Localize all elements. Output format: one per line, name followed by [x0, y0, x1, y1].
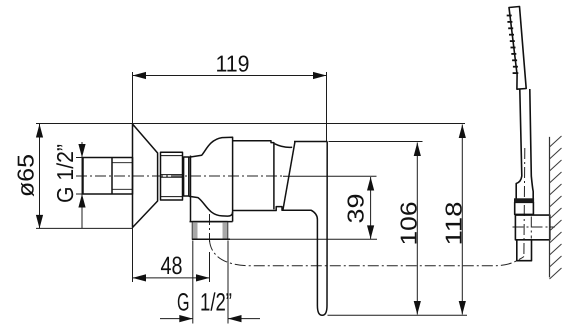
svg-text:48: 48: [161, 252, 183, 280]
svg-text:G: G: [177, 289, 190, 317]
svg-text:106: 106: [396, 202, 422, 246]
svg-text:118: 118: [441, 202, 467, 246]
svg-text:39: 39: [343, 194, 369, 224]
svg-text:ø65: ø65: [13, 154, 39, 197]
svg-text:G 1/2”: G 1/2”: [52, 144, 78, 203]
svg-text:1/2”: 1/2”: [200, 289, 232, 317]
svg-text:119: 119: [216, 51, 250, 77]
